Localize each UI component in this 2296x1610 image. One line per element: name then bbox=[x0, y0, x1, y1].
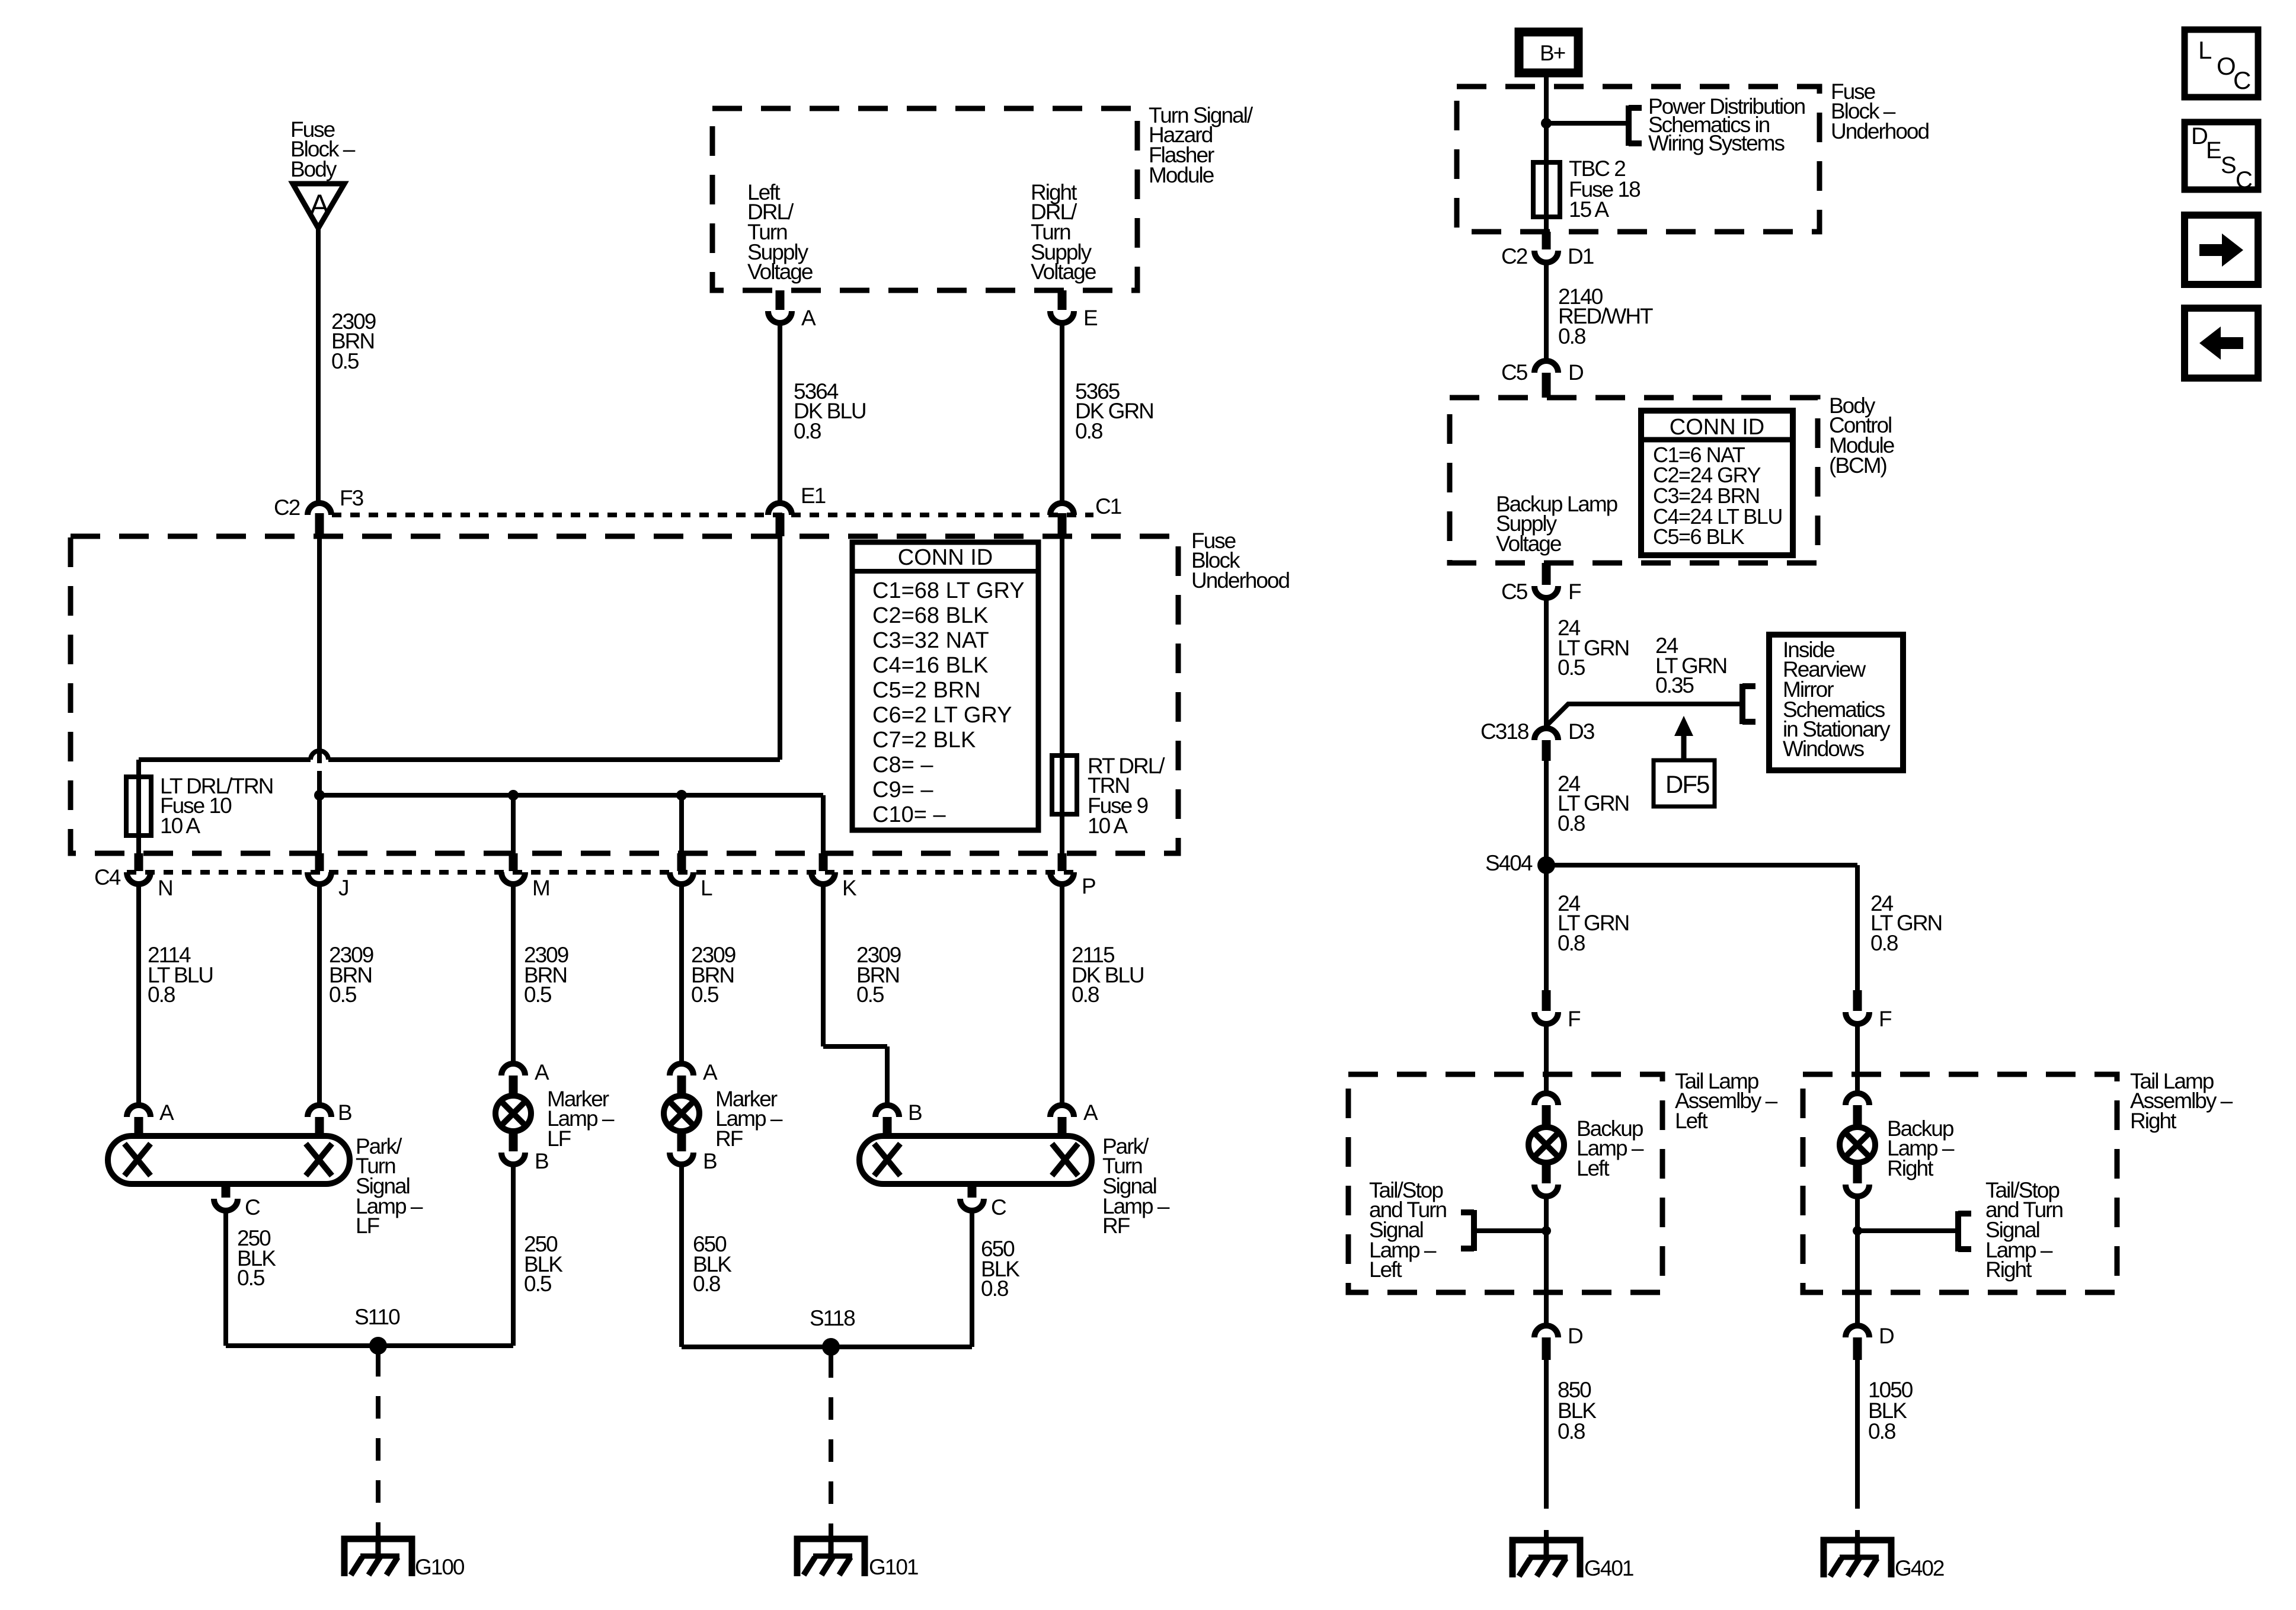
svg-text:G101: G101 bbox=[869, 1555, 918, 1579]
wire F left into tail lamp box bbox=[1544, 1024, 1549, 1093]
svg-text:B: B bbox=[535, 1149, 548, 1173]
park/turn signal lamp RF body bbox=[859, 1136, 1092, 1184]
dashed ground wire to G401 bbox=[1544, 1485, 1549, 1540]
wire 850 BLK bbox=[1544, 1360, 1549, 1485]
Tail Lamp Assembly Left box bbox=[1348, 1074, 1662, 1292]
wire bracket to backup lamp left wire bbox=[1477, 1226, 1551, 1235]
svg-text:0.8: 0.8 bbox=[1558, 1419, 1585, 1443]
svg-text:0.8: 0.8 bbox=[1558, 324, 1585, 348]
right arrow legend box bbox=[2185, 215, 2258, 284]
connector C5/F bbox=[1534, 563, 1558, 598]
ground G402 bbox=[1824, 1540, 1891, 1577]
wire bracket to backup lamp right wire bbox=[1853, 1226, 1955, 1235]
svg-text:(BCM): (BCM) bbox=[1829, 453, 1887, 478]
connector P bbox=[1050, 853, 1074, 884]
wire backup lamp right to D bbox=[1855, 1198, 1860, 1326]
bracket to Power Distribution Schematics bbox=[1626, 105, 1632, 146]
svg-text:0.5: 0.5 bbox=[331, 349, 359, 373]
svg-text:C2=68 BLK: C2=68 BLK bbox=[872, 603, 988, 628]
wire 2309 BRN L to marker RF bbox=[679, 884, 684, 1064]
wire F right into tail lamp box bbox=[1855, 1024, 1860, 1093]
svg-text:G100: G100 bbox=[415, 1555, 465, 1579]
connector C2/D1 bbox=[1534, 232, 1558, 263]
svg-text:Wiring Systems: Wiring Systems bbox=[1648, 131, 1785, 155]
svg-text:B: B bbox=[908, 1100, 922, 1125]
wire S404 right branch down to F right bbox=[1855, 865, 1860, 990]
svg-text:0.8: 0.8 bbox=[1868, 1419, 1895, 1443]
pin A of flasher module bbox=[768, 290, 816, 330]
svg-text:0.8: 0.8 bbox=[1870, 931, 1898, 955]
svg-text:Voltage: Voltage bbox=[747, 260, 813, 284]
bracket tail/stop lamp left bbox=[1471, 1210, 1477, 1251]
svg-text:0.8: 0.8 bbox=[1072, 982, 1099, 1007]
svg-text:A: A bbox=[159, 1100, 174, 1125]
wire 250 BLK from C to S110 bus bbox=[223, 1211, 228, 1346]
dashed ground wire to G101 bbox=[829, 1355, 833, 1539]
svg-text:B: B bbox=[338, 1100, 351, 1125]
park/turn signal lamp LF body bbox=[108, 1136, 350, 1184]
svg-text:C1=68 LT GRY: C1=68 LT GRY bbox=[872, 578, 1025, 603]
connector C4/N bbox=[127, 853, 151, 884]
wire 1050 BLK bbox=[1855, 1360, 1860, 1485]
svg-text:C7=2 BLK: C7=2 BLK bbox=[872, 728, 976, 753]
svg-text:D1: D1 bbox=[1568, 244, 1594, 268]
CONN ID table fuse block bbox=[852, 542, 1038, 830]
svg-text:LF: LF bbox=[356, 1214, 380, 1238]
svg-text:Body: Body bbox=[290, 157, 337, 181]
svg-text:Windows: Windows bbox=[1783, 737, 1865, 761]
connector M bbox=[501, 853, 525, 884]
svg-text:S110: S110 bbox=[354, 1305, 400, 1329]
svg-text:P: P bbox=[1082, 874, 1095, 898]
svg-text:C8= –: C8= – bbox=[872, 753, 933, 777]
marker lamp RF bulb bbox=[664, 1096, 699, 1131]
svg-text:L: L bbox=[2198, 36, 2212, 64]
wire feeder corner down to fuse 10 bbox=[136, 760, 141, 777]
ground bus S118 bbox=[682, 1338, 972, 1356]
wire C2/F3 to busbar and J bbox=[317, 536, 322, 763]
power feed B+ bbox=[1519, 32, 1578, 73]
svg-text:A: A bbox=[801, 306, 816, 330]
wire 5365 DK GRN from E to C1 bbox=[1060, 323, 1064, 501]
svg-text:E1: E1 bbox=[801, 484, 826, 508]
svg-text:C318: C318 bbox=[1480, 719, 1528, 744]
svg-text:0.5: 0.5 bbox=[329, 982, 357, 1007]
arrow from DF5 to branch wire bbox=[1674, 716, 1693, 760]
svg-text:C10= –: C10= – bbox=[872, 802, 946, 827]
svg-text:0.8: 0.8 bbox=[693, 1272, 720, 1296]
Fuse Block Underhood right box bbox=[1457, 87, 1819, 232]
busbar J-M-L-K bbox=[314, 790, 823, 801]
CONN ID table BCM bbox=[1641, 411, 1793, 555]
svg-text:M: M bbox=[532, 876, 549, 900]
svg-text:Left: Left bbox=[1369, 1257, 1402, 1282]
svg-text:CONN ID: CONN ID bbox=[1670, 415, 1764, 440]
svg-text:0.35: 0.35 bbox=[1655, 673, 1694, 697]
connector C of park/turn RF bbox=[960, 1184, 1006, 1219]
connector C of park/turn LF bbox=[214, 1184, 260, 1219]
svg-text:Underhood: Underhood bbox=[1191, 568, 1290, 593]
svg-text:LF: LF bbox=[547, 1126, 571, 1151]
wire busbar drop K bbox=[821, 795, 826, 853]
connector A of park/turn RF bbox=[1050, 1100, 1098, 1136]
connector L bbox=[670, 853, 693, 884]
svg-text:N: N bbox=[158, 876, 172, 900]
svg-text:0.8: 0.8 bbox=[981, 1276, 1008, 1301]
splice S404 bbox=[1537, 856, 1857, 874]
wire 2140 RED/WHT bbox=[1544, 263, 1549, 361]
svg-text:A: A bbox=[703, 1060, 718, 1084]
svg-text:C5: C5 bbox=[1501, 360, 1528, 385]
svg-text:Right: Right bbox=[1985, 1257, 2032, 1282]
ground G100 bbox=[344, 1539, 412, 1576]
connector K bbox=[811, 853, 835, 884]
wire 2114 LT BLU N to LF lamp A bbox=[136, 884, 141, 1105]
wire 24 LT GRN 0.5 down bbox=[1544, 598, 1549, 728]
svg-text:J: J bbox=[338, 876, 348, 900]
wire C1 to fuse 9 bbox=[1060, 536, 1064, 756]
svg-text:F: F bbox=[1568, 580, 1581, 604]
svg-text:C9= –: C9= – bbox=[872, 777, 933, 802]
bracket tail/stop lamp right bbox=[1955, 1211, 1961, 1251]
svg-text:C3=32 NAT: C3=32 NAT bbox=[872, 628, 989, 653]
wire 2115 DK BLU P to RF lamp A bbox=[1060, 884, 1064, 1105]
Body Control Module box bbox=[1450, 398, 1818, 563]
wire 5364 DK BLU from A to E1 bbox=[778, 323, 782, 501]
connector C5/D bbox=[1534, 361, 1558, 398]
svg-text:D: D bbox=[1568, 360, 1583, 385]
wire backup lamp left to D bbox=[1544, 1198, 1549, 1326]
svg-text:G402: G402 bbox=[1895, 1556, 1944, 1580]
svg-text:D3: D3 bbox=[1568, 719, 1594, 744]
dotted connector row bottom bbox=[127, 870, 1077, 875]
svg-text:Module: Module bbox=[1149, 163, 1214, 187]
connector F left bbox=[1534, 990, 1581, 1031]
Tail Lamp Assembly Right box bbox=[1803, 1074, 2117, 1292]
svg-text:Left: Left bbox=[1576, 1156, 1610, 1180]
marker lamp LF bulb bbox=[495, 1096, 531, 1131]
wire 2309 BRN J to LF lamp B bbox=[317, 884, 322, 1105]
svg-text:C2: C2 bbox=[1501, 244, 1527, 268]
dashed ground wire to G402 bbox=[1855, 1485, 1860, 1540]
svg-text:Underhood: Underhood bbox=[1831, 119, 1929, 143]
wire busbar drop L bbox=[679, 795, 684, 853]
fuse LT DRL/TRN Fuse 10 bbox=[126, 777, 151, 853]
wire E1 down to fuse 10 feeder bbox=[778, 536, 782, 760]
svg-text:15 A: 15 A bbox=[1569, 197, 1609, 222]
svg-text:C: C bbox=[2233, 66, 2251, 94]
svg-text:0.5: 0.5 bbox=[524, 982, 552, 1007]
connector C1 bbox=[1050, 503, 1074, 536]
connector B of park/turn LF bbox=[308, 1100, 351, 1136]
svg-text:F: F bbox=[1879, 1007, 1892, 1031]
backup lamp left terminal top bbox=[1534, 1093, 1558, 1126]
ground bus S110 bbox=[226, 1337, 513, 1355]
svg-text:Voltage: Voltage bbox=[1496, 532, 1561, 556]
connector E1 bbox=[768, 503, 792, 536]
left arrow legend box bbox=[2185, 308, 2258, 378]
backup lamp right bulb bbox=[1840, 1127, 1875, 1163]
svg-text:0.5: 0.5 bbox=[1558, 655, 1585, 680]
svg-text:Right: Right bbox=[1887, 1156, 1934, 1180]
svg-text:0.8: 0.8 bbox=[794, 419, 821, 443]
connector B of marker lamp RF bbox=[670, 1130, 717, 1173]
bracket to rearview mirror schematics bbox=[1739, 684, 1745, 724]
wire 650 BLK from C RF to S118 bus bbox=[970, 1211, 974, 1347]
Turn Signal/Hazard Flasher Module box bbox=[712, 108, 1137, 290]
svg-text:Left: Left bbox=[1675, 1109, 1708, 1133]
svg-text:C: C bbox=[245, 1195, 260, 1219]
svg-text:D: D bbox=[1568, 1324, 1582, 1348]
wire 2309 BRN K to RF lamp B bbox=[823, 884, 887, 1105]
wire 2309 BRN M to marker LF bbox=[511, 884, 516, 1064]
pin E of flasher module bbox=[1050, 290, 1098, 330]
svg-text:C5=6 BLK: C5=6 BLK bbox=[1653, 524, 1745, 549]
connector C2/F3 bbox=[308, 503, 331, 536]
svg-text:RF: RF bbox=[715, 1126, 743, 1151]
svg-text:0.5: 0.5 bbox=[524, 1272, 552, 1296]
connector F right bbox=[1846, 990, 1892, 1031]
svg-text:A: A bbox=[535, 1060, 549, 1084]
svg-text:A: A bbox=[309, 188, 330, 222]
svg-text:C2: C2 bbox=[274, 495, 300, 520]
connector B of marker lamp LF bbox=[501, 1130, 548, 1173]
svg-text:0.8: 0.8 bbox=[148, 982, 175, 1007]
wire B+ down into fuse block bbox=[1544, 77, 1549, 162]
svg-text:0.8: 0.8 bbox=[1558, 811, 1585, 836]
connector A of park/turn LF bbox=[127, 1100, 174, 1136]
svg-text:Voltage: Voltage bbox=[1031, 260, 1096, 284]
wire 250 BLK marker LF to bus bbox=[511, 1164, 516, 1346]
junction to power distribution bbox=[1541, 118, 1626, 129]
svg-text:C: C bbox=[991, 1195, 1006, 1219]
wire 24 LT GRN 0.8 to S404 bbox=[1544, 761, 1549, 865]
svg-text:0.5: 0.5 bbox=[691, 982, 719, 1007]
svg-text:C5=2 BRN: C5=2 BRN bbox=[872, 678, 981, 703]
svg-text:C6=2 LT GRY: C6=2 LT GRY bbox=[872, 703, 1012, 728]
svg-text:B: B bbox=[703, 1149, 717, 1173]
svg-text:10 A: 10 A bbox=[1088, 814, 1128, 838]
svg-text:Right: Right bbox=[2130, 1109, 2177, 1133]
svg-text:C4: C4 bbox=[94, 865, 121, 889]
backup lamp left bulb bbox=[1528, 1127, 1564, 1163]
feeder wire fuse10 to E1 with hop over J wire bbox=[139, 751, 780, 760]
svg-text:RF: RF bbox=[1102, 1214, 1130, 1238]
svg-text:S404: S404 bbox=[1485, 851, 1533, 875]
connector D right bbox=[1846, 1324, 1894, 1360]
svg-text:0.8: 0.8 bbox=[1075, 419, 1102, 443]
svg-text:10 A: 10 A bbox=[160, 814, 200, 838]
wire busbar drop M bbox=[511, 795, 516, 853]
backup lamp right terminal top bbox=[1846, 1093, 1869, 1126]
wire 650 BLK marker RF to bus bbox=[679, 1164, 684, 1347]
svg-text:L: L bbox=[701, 876, 712, 900]
wire S404 down to F left bbox=[1544, 865, 1549, 990]
branch wire to rearview mirror schematics bbox=[1546, 704, 1739, 726]
svg-text:S: S bbox=[2221, 152, 2237, 178]
svg-text:C4=16 BLK: C4=16 BLK bbox=[872, 653, 988, 678]
ground G401 bbox=[1512, 1540, 1580, 1577]
svg-text:K: K bbox=[842, 876, 857, 900]
connector D left bbox=[1534, 1324, 1582, 1360]
LOC legend box bbox=[2185, 30, 2258, 97]
Inside Rearview Mirror Schematics box bbox=[1769, 635, 1903, 770]
dashed ground wire to G100 bbox=[376, 1354, 380, 1539]
connector A of marker lamp LF bbox=[501, 1060, 549, 1097]
DF5 box bbox=[1654, 760, 1715, 806]
dotted connector row top bbox=[332, 513, 1093, 517]
svg-text:DF5: DF5 bbox=[1665, 770, 1709, 798]
svg-text:0.5: 0.5 bbox=[856, 982, 884, 1007]
backup lamp left terminal bottom bbox=[1534, 1162, 1558, 1196]
svg-text:F3: F3 bbox=[340, 486, 363, 510]
connector C318/D3 bbox=[1534, 728, 1558, 761]
connector A of marker lamp RF bbox=[670, 1060, 718, 1097]
ground G101 bbox=[797, 1539, 865, 1576]
fuse RT DRL/TRN Fuse 9 bbox=[1052, 756, 1077, 853]
svg-text:0.8: 0.8 bbox=[1558, 931, 1585, 955]
Fuse Block Underhood box bbox=[71, 536, 1178, 853]
fuse TBC 2 Fuse 18 bbox=[1533, 162, 1560, 232]
svg-text:B+: B+ bbox=[1540, 41, 1565, 65]
svg-text:E: E bbox=[1083, 306, 1098, 330]
svg-text:G401: G401 bbox=[1584, 1556, 1633, 1580]
wire 2309 BRN from triangle A to C2/F3 bbox=[316, 228, 321, 501]
backup lamp right terminal bottom bbox=[1846, 1162, 1869, 1196]
svg-text:S118: S118 bbox=[810, 1306, 855, 1330]
svg-text:C: C bbox=[2236, 167, 2253, 193]
connector J bbox=[308, 853, 331, 884]
svg-text:E: E bbox=[2206, 137, 2222, 164]
connector B of park/turn RF bbox=[875, 1100, 922, 1136]
svg-text:C5: C5 bbox=[1501, 580, 1528, 604]
DESC legend box bbox=[2185, 122, 2258, 193]
connector triangle A to Fuse Block - Body bbox=[293, 184, 344, 228]
svg-text:CONN ID: CONN ID bbox=[898, 545, 993, 570]
svg-text:C1: C1 bbox=[1095, 494, 1121, 518]
svg-text:A: A bbox=[1083, 1100, 1098, 1125]
svg-text:F: F bbox=[1568, 1007, 1581, 1031]
svg-text:0.5: 0.5 bbox=[237, 1266, 265, 1290]
svg-text:D: D bbox=[1879, 1324, 1894, 1348]
